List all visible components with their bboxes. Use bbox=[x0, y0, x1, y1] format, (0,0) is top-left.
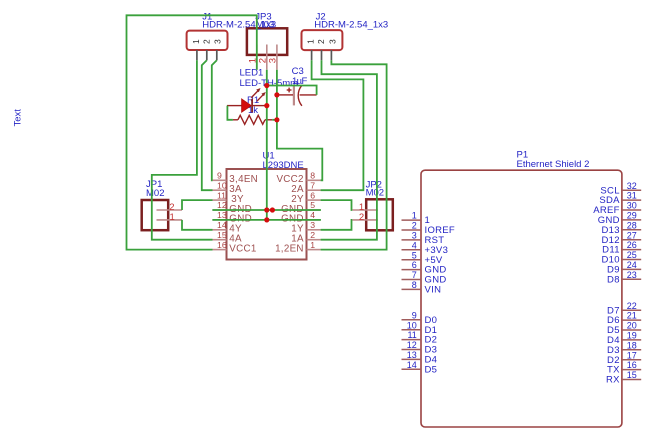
LED1 cathode bar bbox=[251, 99, 253, 113]
svg-text:6: 6 bbox=[310, 190, 315, 200]
J2 pin name 3 bbox=[327, 39, 337, 44]
text Text bbox=[13, 109, 24, 127]
J1 pin 3 stub bbox=[216, 50, 218, 60]
svg-text:8: 8 bbox=[412, 280, 417, 290]
svg-text:28: 28 bbox=[627, 220, 637, 230]
svg-text:3: 3 bbox=[310, 220, 315, 230]
P1 left upper stubs pins 1-8 bbox=[402, 220, 422, 289]
P1 right upper pin numbers bbox=[627, 181, 637, 280]
wire GND row pin13 to pin4 bbox=[212, 219, 321, 221]
svg-text:15: 15 bbox=[627, 370, 637, 380]
svg-text:10: 10 bbox=[217, 180, 227, 190]
J2 pin name 1 bbox=[306, 39, 316, 44]
JP1 pin 1 stub bbox=[157, 219, 183, 221]
svg-text:M03: M03 bbox=[256, 19, 274, 30]
svg-text:20: 20 bbox=[627, 321, 637, 331]
junction C3 positive / line B bbox=[274, 92, 279, 97]
svg-text:16: 16 bbox=[627, 360, 637, 370]
wire R1 right to line B bbox=[272, 119, 277, 121]
svg-text:Text: Text bbox=[13, 109, 24, 127]
C3 left lead bbox=[278, 94, 293, 96]
junction GND upper row right bbox=[270, 207, 275, 212]
op IC U1 body bbox=[227, 169, 307, 260]
C3 negative plate arc bbox=[298, 85, 302, 106]
svg-text:1: 1 bbox=[306, 39, 316, 44]
svg-text:13: 13 bbox=[217, 210, 227, 220]
wire GND row pin12 to pin5 bbox=[212, 209, 321, 211]
P1 left upper pin names bbox=[425, 215, 456, 295]
svg-text:13: 13 bbox=[407, 350, 417, 360]
LED1 light arrow 2 bbox=[257, 95, 263, 102]
svg-text:17: 17 bbox=[627, 350, 637, 360]
P1 right lower stubs pins 22-15 bbox=[622, 310, 641, 379]
JP2 pin 1 stub bbox=[352, 209, 378, 211]
svg-text:1: 1 bbox=[310, 240, 315, 250]
svg-text:1: 1 bbox=[412, 211, 417, 221]
svg-text:2: 2 bbox=[359, 212, 364, 223]
P1 left lower pin names bbox=[425, 315, 438, 376]
wire GND vertical line A bbox=[266, 70, 268, 220]
svg-text:14: 14 bbox=[407, 360, 417, 370]
J1 pin 1 stub bbox=[196, 50, 198, 60]
JP2 pin 2 stub bbox=[352, 219, 378, 221]
connector JP2 body bbox=[366, 199, 393, 230]
svg-text:1: 1 bbox=[170, 212, 175, 223]
svg-text:HDR-M-2.54_1x3: HDR-M-2.54_1x3 bbox=[314, 19, 388, 30]
U1 right pin names bbox=[275, 174, 304, 254]
svg-text:21: 21 bbox=[627, 311, 637, 321]
svg-text:L293DNE: L293DNE bbox=[263, 160, 304, 171]
svg-text:11: 11 bbox=[407, 330, 416, 340]
svg-text:1: 1 bbox=[191, 39, 201, 44]
U1 right pin stubs 8-1 bbox=[307, 180, 321, 249]
svg-text:18: 18 bbox=[627, 340, 637, 350]
U1 left pin stubs 9-16 bbox=[212, 180, 226, 249]
svg-text:3: 3 bbox=[213, 39, 223, 44]
svg-text:Ethernet Shield 2: Ethernet Shield 2 bbox=[517, 159, 590, 170]
J2 pin 2 stub bbox=[321, 50, 323, 60]
junction LED cathode / GND bbox=[264, 103, 269, 108]
connector J2 body bbox=[302, 30, 343, 50]
svg-text:2: 2 bbox=[201, 39, 211, 44]
connector JP3 body bbox=[247, 28, 287, 55]
wire JP1.2 to U1.3Y bbox=[182, 200, 213, 210]
svg-text:M02: M02 bbox=[366, 188, 384, 199]
wire net VCC1: JP3.1 to U1.16 via top-left loop bbox=[127, 15, 257, 249]
P1 right upper stubs pins 32-23 bbox=[622, 190, 641, 279]
P1 left lower pin numbers bbox=[407, 310, 417, 370]
wire GND branch to C3 negative bbox=[267, 86, 317, 95]
svg-text:2: 2 bbox=[310, 230, 315, 240]
svg-text:M02: M02 bbox=[146, 188, 164, 199]
wire J1.3 to U1.3,4EN bbox=[212, 60, 217, 180]
JP3 pin 1 stub bbox=[256, 45, 258, 70]
svg-text:D5: D5 bbox=[425, 364, 438, 375]
LED1 anode lead bbox=[227, 105, 242, 107]
C3 plus sign bbox=[287, 89, 292, 91]
svg-text:6: 6 bbox=[412, 260, 417, 270]
svg-text:VCC1: VCC1 bbox=[229, 243, 256, 254]
JP3 pin 3 stub bbox=[276, 45, 278, 70]
wire J2.3 to U1.1,2EN bbox=[321, 60, 387, 249]
svg-text:31: 31 bbox=[627, 191, 637, 201]
svg-text:26: 26 bbox=[627, 240, 637, 250]
svg-text:2: 2 bbox=[412, 221, 417, 231]
wire U1.1Y to JP2.2 bbox=[321, 220, 353, 230]
wire J2.2 to U1.1A bbox=[321, 60, 377, 239]
P1 right lower pin numbers bbox=[627, 301, 637, 380]
svg-text:12: 12 bbox=[217, 200, 227, 210]
JP3 pin 2 stub bbox=[266, 45, 268, 70]
C3 positive plate bbox=[293, 86, 295, 106]
svg-text:1,2EN: 1,2EN bbox=[275, 243, 304, 254]
module P1 body bbox=[421, 170, 622, 427]
J2 pin 1 stub bbox=[311, 50, 313, 60]
wire JP1.1 to U1.4Y bbox=[182, 220, 213, 230]
LED1 light arrow 1 bbox=[251, 91, 258, 98]
svg-text:10: 10 bbox=[407, 320, 417, 330]
svg-text:16: 16 bbox=[217, 240, 227, 250]
wire U1.2Y to JP2.1 bbox=[321, 200, 353, 210]
junction GND upper row left bbox=[264, 207, 269, 212]
svg-text:4: 4 bbox=[412, 240, 417, 250]
P1 right lower pin names bbox=[606, 305, 620, 385]
svg-text:12: 12 bbox=[407, 340, 417, 350]
svg-text:32: 32 bbox=[627, 181, 637, 191]
junction GND lower row bbox=[264, 217, 269, 222]
wire +12V line B JP3.3 to U1.VCC2 bbox=[277, 70, 322, 181]
svg-text:25: 25 bbox=[627, 250, 637, 260]
JP3 pin number 1 bbox=[247, 58, 258, 63]
svg-text:2: 2 bbox=[316, 39, 326, 44]
R1 zigzag bbox=[238, 115, 265, 124]
svg-text:3: 3 bbox=[268, 58, 279, 63]
C3 right lead bbox=[300, 94, 317, 96]
svg-text:LED-TH-5mm: LED-TH-5mm bbox=[240, 78, 299, 89]
svg-text:RX: RX bbox=[606, 375, 620, 386]
LED1 cathode lead bbox=[252, 105, 267, 107]
U1 left pin names bbox=[229, 174, 258, 254]
svg-text:9: 9 bbox=[217, 171, 222, 181]
J1 pin name 3 bbox=[213, 39, 223, 44]
J2 pin 3 stub bbox=[330, 50, 332, 60]
P1 left lower stubs pins 9-14 bbox=[402, 320, 422, 370]
svg-text:14: 14 bbox=[217, 220, 227, 230]
svg-text:D8: D8 bbox=[607, 274, 620, 285]
junction R1 / line B bbox=[274, 117, 279, 122]
svg-text:19: 19 bbox=[627, 331, 637, 341]
P1 left upper pin numbers bbox=[412, 211, 417, 290]
svg-text:22: 22 bbox=[627, 301, 637, 311]
U1 left pin numbers bbox=[217, 171, 227, 250]
svg-text:3: 3 bbox=[327, 39, 337, 44]
JP1 pin 2 stub bbox=[157, 209, 183, 211]
svg-text:5: 5 bbox=[412, 250, 417, 260]
svg-text:5: 5 bbox=[310, 200, 315, 210]
svg-text:29: 29 bbox=[627, 211, 637, 221]
svg-text:23: 23 bbox=[627, 270, 637, 280]
svg-text:30: 30 bbox=[627, 201, 637, 211]
svg-text:8: 8 bbox=[310, 171, 315, 181]
connector JP1 body bbox=[142, 200, 169, 230]
JP3 pin number 2 bbox=[257, 58, 268, 63]
R1 left lead bbox=[233, 119, 238, 121]
wire J1.2 to U1.3A bbox=[202, 60, 213, 190]
wire J1.1 to U1.4A bbox=[152, 60, 213, 239]
svg-text:7: 7 bbox=[310, 180, 315, 190]
J1 pin name 2 bbox=[201, 39, 211, 44]
svg-text:15: 15 bbox=[217, 230, 227, 240]
R1 right lead bbox=[265, 119, 272, 121]
P1 right upper pin names bbox=[593, 185, 620, 285]
JP3 pin number 3 bbox=[268, 58, 279, 63]
J1 pin name 1 bbox=[191, 39, 201, 44]
wire J2.1 to U1.2A bbox=[312, 60, 364, 190]
J2 pin name 2 bbox=[316, 39, 326, 44]
junction C3 negative branch bbox=[264, 83, 269, 88]
svg-text:24: 24 bbox=[627, 260, 637, 270]
svg-text:9: 9 bbox=[412, 310, 417, 320]
svg-text:3: 3 bbox=[412, 231, 417, 241]
svg-text:7: 7 bbox=[412, 270, 417, 280]
wire LED anode to R1 left bbox=[227, 106, 233, 120]
svg-text:11: 11 bbox=[217, 190, 226, 200]
svg-text:27: 27 bbox=[627, 230, 637, 240]
svg-text:VIN: VIN bbox=[425, 285, 442, 296]
connector J1 body bbox=[187, 31, 228, 50]
U1 right pin numbers bbox=[310, 171, 315, 250]
J1 pin 2 stub bbox=[206, 50, 208, 60]
svg-text:4: 4 bbox=[310, 210, 315, 220]
LED1 triangle bbox=[242, 99, 252, 112]
